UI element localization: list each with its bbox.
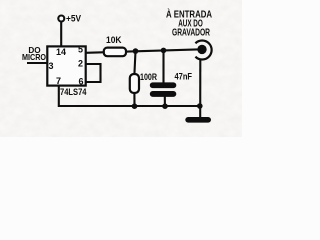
svg-text:7: 7 [56,76,61,86]
svg-text:100R: 100R [140,72,157,82]
svg-text:47nF: 47nF [175,72,193,82]
svg-text:2: 2 [78,58,83,68]
svg-text:6: 6 [78,76,83,86]
svg-text:10K: 10K [106,35,122,45]
svg-text:5: 5 [78,44,83,54]
svg-text:MICRO: MICRO [22,53,47,62]
svg-text:14: 14 [56,47,66,57]
svg-text:GRAVADOR: GRAVADOR [172,28,211,39]
svg-text:74LS74: 74LS74 [60,86,87,97]
svg-text:3: 3 [48,61,53,71]
svg-text:+5V: +5V [66,14,81,24]
